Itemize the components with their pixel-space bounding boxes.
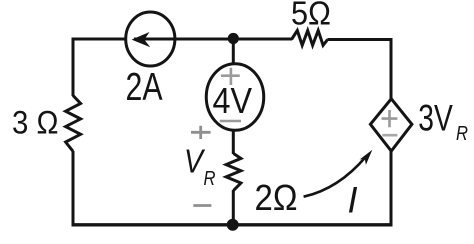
wire top node down to 4V source (232, 38, 235, 65)
current source 2A arrowhead (132, 32, 151, 47)
svg-text:2Ω: 2Ω (255, 177, 298, 218)
plus mark in diamond (382, 110, 398, 127)
svg-text:V: V (184, 143, 206, 180)
current source 2A (circle) (126, 12, 175, 66)
wire left vertical lower (3-ohm to bottom corner) (72, 151, 75, 227)
node B (bottom junction dot) (227, 219, 239, 231)
svg-text:3V: 3V (418, 97, 453, 139)
wire 2-ohm resistor to bottom node (232, 190, 235, 225)
node A (top junction dot) (228, 33, 239, 44)
svg-text:3 Ω: 3 Ω (12, 104, 59, 140)
svg-text:R: R (456, 123, 468, 145)
svg-text:4V: 4V (213, 80, 253, 121)
svg-text:I: I (348, 180, 358, 221)
plus mark of VR (191, 126, 211, 139)
wire bottom horizontal (72, 223, 393, 226)
resistor R1 3 ohm (zigzag) (66, 96, 81, 152)
resistor R3 2 ohm (zigzag) (226, 154, 241, 191)
wire right vertical upper (corner to diamond) (390, 38, 393, 99)
wire current source to top node (176, 38, 234, 41)
wire 5-ohm to top-right corner (327, 38, 392, 41)
wire left vertical upper (corner to 3-ohm resistor) (72, 38, 75, 97)
plus mark in 4V source (221, 68, 240, 85)
resistor R2 5 ohm (zigzag) (292, 31, 328, 46)
wire right vertical lower (diamond to bottom corner) (390, 150, 393, 227)
current source 2A arrow shaft (134, 38, 177, 41)
svg-text:2A: 2A (126, 66, 163, 109)
wire top node to 5-ohm resistor (233, 38, 292, 41)
current arrow I (curved) (304, 157, 366, 197)
current arrowhead I (360, 150, 373, 165)
svg-text:5Ω: 5Ω (291, 0, 331, 33)
minus mark of VR (193, 204, 211, 207)
dependent source U1 3VR (diamond) (370, 99, 412, 151)
minus mark in 4V source (220, 120, 241, 123)
wire 4V source to 2-ohm resistor (232, 131, 235, 155)
voltage source V1 4V (circle) (206, 64, 264, 131)
svg-text:R: R (204, 168, 216, 190)
minus mark in diamond (382, 134, 397, 137)
wire top-left horizontal (corner to current source) (73, 38, 125, 41)
